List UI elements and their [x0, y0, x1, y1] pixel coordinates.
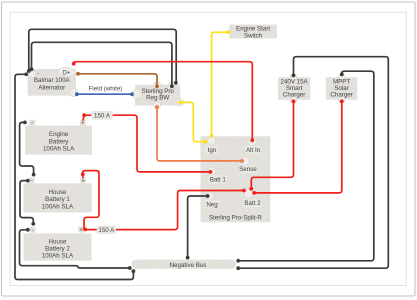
- battery B3 minus terminal: [30, 227, 36, 234]
- svg-text:-: -: [32, 228, 34, 234]
- alternator body: Balmar 100A Alternator: [28, 69, 76, 96]
- wire engine start switch to Pro-Split Ign: [210, 30, 231, 137]
- Pro-Split pin Sense: [239, 157, 258, 173]
- fuse F1: 150 A: [91, 111, 112, 120]
- svg-text:Field (white): Field (white): [89, 86, 123, 93]
- regulator U1: Sterling Pro Reg BW: [133, 82, 184, 109]
- svg-text:Alt In: Alt In: [246, 147, 261, 154]
- svg-text:Negative Bus: Negative Bus: [170, 262, 207, 269]
- wire MPPT charger + to Pro-Split Batt 2 right: [252, 99, 343, 194]
- alternator D+ terminal: [58, 67, 75, 77]
- Pro-Split pin Neg: [204, 192, 220, 208]
- Pro-Split pin Batt 2: [243, 190, 262, 207]
- battery B3 plus terminal: [78, 227, 84, 234]
- svg-text:+: +: [81, 178, 84, 184]
- svg-text:Charger: Charger: [330, 91, 352, 98]
- wire alternator D+ to Pro-Split Alt In: [72, 62, 254, 142]
- svg-text:Sterling Pro-Split-R: Sterling Pro-Split-R: [209, 214, 262, 221]
- battery B3: House Battery 2 100Ah SLA: [24, 233, 92, 260]
- svg-text:150 A: 150 A: [98, 227, 115, 234]
- wire 150A fuse 1 to Pro-Split Batt 1: [84, 115, 212, 174]
- Pro-Split pin Batt 1: [208, 167, 227, 184]
- svg-text:+: +: [80, 228, 83, 234]
- wire alternator negative to negative bus (under-bus): [15, 72, 135, 279]
- svg-text:+: +: [81, 121, 84, 127]
- Pro-Split pin Ign: [205, 136, 220, 154]
- wire Pro-Split Neg to negative bus top: [186, 194, 210, 259]
- svg-text:Switch: Switch: [244, 32, 263, 39]
- battery B1: Engine Battery 100Ah SLA: [25, 126, 92, 155]
- wire alternator D+ to Reg BW top (field excite): [76, 72, 159, 88]
- svg-text:D+: D+: [62, 69, 70, 76]
- wire alternator field to Reg BW (blue): [75, 92, 134, 96]
- svg-text:-: -: [31, 178, 33, 184]
- alternator minus terminal: [29, 71, 41, 78]
- wire house battery 1 + stub: [82, 175, 84, 178]
- svg-text:Battery: Battery: [49, 138, 70, 145]
- svg-text:-: -: [31, 120, 33, 126]
- battery B2 plus terminal: [80, 177, 86, 184]
- wire engine battery negative to house battery 1 negative: [20, 121, 36, 177]
- Pro-Split title: [209, 214, 262, 221]
- wire engine battery + to 150A fuse 1: [82, 113, 86, 120]
- svg-text:Batt 2: Batt 2: [244, 200, 261, 207]
- negative bus bar: [132, 260, 237, 269]
- wire house battery 1 negative to house battery 2 negative: [20, 179, 35, 226]
- svg-text:Sense: Sense: [239, 166, 257, 173]
- wire 150A fuse 2 to Pro-Split Batt 2 left: [85, 189, 245, 230]
- wire alternator negative to Sterling Pro Reg BW (inner): [30, 42, 174, 88]
- wire house battery 1 + to house battery 2 +: [81, 171, 99, 232]
- charger: MPPT Solar Charger: [326, 74, 357, 103]
- wire Reg BW ignition feed to Pro-Split Ign: [178, 101, 207, 144]
- battery B1 plus terminal: [80, 120, 86, 127]
- svg-text:Neg: Neg: [206, 201, 218, 208]
- battery B2 minus terminal: [29, 177, 35, 184]
- svg-text:-: -: [37, 71, 39, 77]
- battery B2: House Battery 1 100Ah SLA: [23, 183, 91, 212]
- splitter U2: Sterling Pro-Split-R: [201, 136, 271, 222]
- wire 240V charger negative to negative bus right: [236, 57, 388, 270]
- svg-text:Battery 1: Battery 1: [45, 196, 70, 203]
- wire alternator negative to Sterling Pro Reg BW (outer): [27, 29, 178, 84]
- svg-text:House: House: [49, 189, 67, 196]
- battery B1 minus terminal: [29, 120, 35, 127]
- svg-text:Alternator: Alternator: [38, 84, 65, 91]
- svg-text:Balmar 100A: Balmar 100A: [34, 77, 71, 84]
- alternator field terminal (blue): [70, 89, 78, 97]
- svg-text:100Ah SLA: 100Ah SLA: [42, 252, 74, 259]
- svg-text:House: House: [49, 238, 67, 245]
- wire house battery 2 negative to negative bus left: [20, 228, 132, 270]
- Pro-Split pin Alt In: [245, 137, 262, 154]
- svg-text:Battery 2: Battery 2: [45, 245, 70, 252]
- svg-text:Ign: Ign: [208, 147, 217, 154]
- svg-text:Reg BW: Reg BW: [146, 95, 169, 102]
- svg-text:Charger: Charger: [283, 91, 305, 98]
- switch: Engine Start Switch: [229, 25, 277, 40]
- fuse F2: 150 A: [97, 226, 116, 234]
- svg-text:150 A: 150 A: [94, 113, 111, 120]
- wire MPPT charger negative to negative bus right: [236, 71, 373, 262]
- wire Reg BW to Pro-Split Sense (orange): [155, 105, 244, 163]
- wire 240V charger + to Pro-Split Batt 2 top: [249, 99, 295, 190]
- svg-text:100Ah SLA: 100Ah SLA: [42, 203, 74, 210]
- svg-text:Engine: Engine: [49, 131, 69, 138]
- svg-text:100Ah SLA: 100Ah SLA: [43, 146, 75, 153]
- label: Field (white): [89, 86, 123, 93]
- svg-text:Batt 1: Batt 1: [210, 177, 227, 184]
- charger: 240V 15A Smart Charger: [278, 74, 310, 103]
